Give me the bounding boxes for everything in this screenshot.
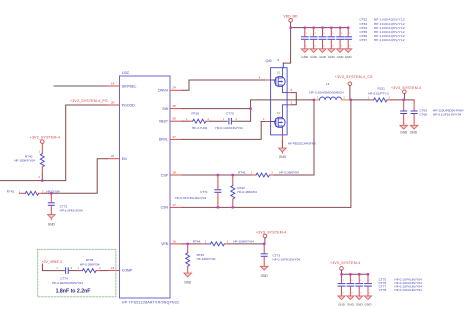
svg-text:CT71: CT71 — [200, 190, 208, 194]
transistor Q40 package — [271, 68, 288, 135]
svg-text:+3V3_SYSTEM-4: +3V3_SYSTEM-4 — [256, 231, 286, 235]
pin VBST (26) stub — [170, 120, 183, 122]
svg-text:HF-0.047UFA16V/Y04: HF-0.047UFA16V/Y04 — [175, 196, 206, 200]
capacitor CT69 — [403, 100, 405, 110]
wire RT46 to COMP — [101, 270, 107, 272]
svg-text:GND: GND — [347, 302, 355, 306]
svg-text:CT68: CT68 — [419, 112, 427, 116]
svg-text:GND: GND — [310, 55, 318, 59]
svg-text:DRVH: DRVH — [158, 89, 168, 93]
ground (CT68) — [410, 125, 418, 129]
svg-text:+2V_VREF-2: +2V_VREF-2 — [42, 260, 63, 264]
svg-text:CT74: CT74 — [60, 276, 68, 280]
svg-text:SKIPSEL: SKIPSEL — [122, 84, 137, 88]
junction VDD_MD stem — [290, 27, 292, 29]
ground (RT45) — [184, 273, 192, 277]
ground (Q40) — [279, 148, 287, 152]
svg-text:EN: EN — [122, 157, 127, 161]
svg-text:GND: GND — [356, 302, 364, 306]
svg-text:17: 17 — [173, 203, 177, 207]
wire VBST net — [183, 120, 189, 122]
junction dots top layer — [41, 27, 405, 276]
wire VDD_MD rail — [291, 27, 349, 29]
svg-text:GND: GND — [301, 55, 309, 59]
svg-text:Q40: Q40 — [265, 59, 271, 63]
wire Q40 source to GND — [281, 135, 283, 141]
svg-text:U3C: U3C — [122, 71, 130, 75]
svg-text:HF-0.48KF/04: HF-0.48KF/04 — [237, 190, 257, 194]
pin SKIPSEL (19) stub — [107, 85, 120, 87]
svg-text:+3V3_SYSTEM-4_CS: +3V3_SYSTEM-4_CS — [335, 75, 373, 79]
svg-text:D2: D2 — [277, 111, 281, 115]
pin EN (21) stub — [107, 158, 120, 160]
junction VFB/RT45 — [187, 243, 189, 245]
bottom bank value list — [379, 277, 423, 292]
resistor RT45 — [187, 244, 189, 253]
svg-text:+3V3_SYSTEM-4: +3V3_SYSTEM-4 — [330, 261, 360, 265]
svg-text:RT39: RT39 — [192, 111, 200, 115]
svg-text:HF-100KF/Y04: HF-100KF/Y04 — [233, 239, 254, 243]
ground (CT72) — [48, 215, 56, 219]
ground (CT69) — [400, 125, 408, 129]
svg-text:CSN: CSN — [161, 206, 169, 210]
svg-text:GND: GND — [328, 55, 336, 59]
svg-text:HF-0.022UFA50V/Y04: HF-0.022UFA50V/Y04 — [52, 281, 83, 285]
wire VDD_MD to Q40 drain — [283, 22, 290, 63]
ground (CT73) — [260, 266, 268, 270]
svg-text:HF-0.1UFA16V/Y04: HF-0.1UFA16V/Y04 — [395, 288, 423, 292]
svg-text:GND: GND — [400, 131, 408, 135]
svg-text:HF-0.1UFK16V/Y04: HF-0.1UFK16V/Y04 — [273, 258, 301, 262]
pin DRVH (24) stub — [170, 89, 183, 91]
svg-text:R742: R742 — [7, 189, 15, 193]
svg-text:VBST: VBST — [159, 120, 169, 124]
capacitor CT72 — [50, 193, 52, 202]
wire RT39 to CT70 — [210, 120, 227, 122]
svg-text:CSP: CSP — [161, 173, 169, 177]
capacitor bank value list — [360, 18, 405, 42]
svg-text:21: 21 — [111, 154, 115, 158]
wire +2V_VREF-2 stub — [42, 264, 64, 271]
wire CSN tap — [183, 100, 351, 207]
power flag +3V3_SYSTEM-4 (output) — [403, 90, 407, 94]
junction L3 left — [313, 99, 315, 101]
wire CT70 to SW — [232, 120, 250, 122]
resistor RT42 — [232, 174, 234, 176]
wire EN net — [45, 159, 107, 194]
svg-text:25: 25 — [173, 104, 177, 108]
svg-text:RT44: RT44 — [193, 239, 201, 243]
svg-text:GND: GND — [345, 55, 353, 59]
svg-text:HF-0.39KF/04: HF-0.39KF/04 — [80, 262, 100, 266]
pin stub Q40 gate2 — [266, 121, 271, 123]
svg-text:DRVL: DRVL — [159, 138, 168, 142]
capacitor CT66 — [337, 28, 344, 53]
wire VFB net — [183, 243, 202, 245]
capacitor CT78 — [364, 274, 371, 299]
svg-text:CT78: CT78 — [379, 288, 387, 292]
svg-text:CT70: CT70 — [226, 111, 234, 115]
svg-text:HF-0.01/PTY-2: HF-0.01/PTY-2 — [368, 92, 389, 96]
junction L3 right — [350, 99, 352, 101]
junction R740/PGOOD — [41, 180, 43, 182]
svg-text:GND: GND — [337, 55, 345, 59]
svg-text:HF-43KF/Y04: HF-43KF/Y04 — [197, 257, 216, 261]
svg-text:HP-3.3UH/SMO/SMDCH: HP-3.3UH/SMO/SMDCH — [309, 90, 343, 94]
svg-text:CT67: CT67 — [360, 38, 368, 42]
svg-text:GND: GND — [279, 155, 287, 159]
svg-text:HP-TPS51228ARTVR/9NQFN32: HP-TPS51228ARTVR/9NQFN32 — [122, 301, 179, 305]
svg-text:1.8nF to 2.2nF: 1.8nF to 2.2nF — [56, 288, 91, 294]
power flag VDD_MD — [289, 19, 293, 23]
pin VFB (16) stub — [170, 243, 183, 245]
svg-text:HP-0.1UF16.8V/Y04: HP-0.1UF16.8V/Y04 — [433, 112, 461, 116]
svg-text:+3V3_SYSTEM-4: +3V3_SYSTEM-4 — [30, 136, 60, 140]
pin CSN (17) stub — [170, 206, 183, 208]
capacitor CT71 — [217, 174, 219, 176]
svg-text:D1: D1 — [277, 70, 281, 74]
pin DRVL (27) stub — [170, 138, 183, 140]
svg-text:+3V3_SYSTEM-4_PG: +3V3_SYSTEM-4_PG — [70, 99, 108, 103]
svg-text:GND: GND — [184, 281, 192, 285]
junctions bottom bank — [340, 273, 369, 275]
svg-text:GND: GND — [48, 223, 56, 227]
svg-text:27: 27 — [173, 135, 177, 139]
wire RT44 to flag — [229, 243, 264, 245]
dashed compensation box — [38, 249, 116, 296]
svg-text:HP-10UFAQ5V/Y12: HP-10UFAQ5V/Y12 — [374, 38, 405, 42]
pin COMP (15) stub — [107, 269, 120, 271]
svg-text:16: 16 — [173, 239, 177, 243]
capacitor CT73 — [263, 244, 265, 253]
svg-text:R321: R321 — [378, 87, 386, 91]
pin SW (25) stub — [170, 108, 183, 110]
svg-text:SW: SW — [162, 107, 168, 111]
resistor R740 — [40, 154, 44, 167]
svg-text:20: 20 — [111, 100, 115, 104]
capacitor CT67 — [345, 28, 352, 53]
svg-text:GND: GND — [338, 302, 346, 306]
svg-text:HF-PE53ZCHPOFN8: HF-PE53ZCHPOFN8 — [288, 141, 316, 145]
wire SKIPSEL net — [54, 85, 107, 87]
wire DRVH net — [183, 80, 266, 90]
svg-text:24: 24 — [173, 86, 177, 90]
wire R740 to PGOOD net — [41, 174, 43, 181]
svg-text:18: 18 — [173, 170, 177, 174]
svg-text:VFB: VFB — [161, 242, 168, 246]
pin PGOOD (20) stub — [107, 104, 120, 106]
SW bracket to Q40 pins — [292, 93, 297, 105]
capacitor CT77 — [356, 274, 363, 299]
capacitor CT75 — [338, 274, 345, 299]
transistor Q40 bottom FET — [275, 117, 285, 127]
svg-text:GND: GND — [261, 274, 269, 278]
svg-text:26: 26 — [173, 117, 177, 121]
svg-text:+3V3_SYSTEM-4: +3V3_SYSTEM-4 — [391, 86, 421, 90]
junction EN/CT72 — [50, 192, 52, 194]
pin CSP (18) stub — [170, 174, 183, 176]
svg-text:HP-1UFK6.3V04: HP-1UFK6.3V04 — [60, 208, 83, 212]
transistor Q40 top FET — [275, 76, 285, 86]
junction R321 output — [403, 99, 405, 101]
capacitor CT63 — [310, 28, 317, 53]
svg-text:HF-100KF/Y04: HF-100KF/Y04 — [14, 159, 35, 163]
svg-text:HF-0.39KF/04: HF-0.39KF/04 — [279, 170, 299, 174]
capacitor CT76 — [347, 274, 354, 299]
svg-text:19: 19 — [111, 81, 115, 85]
svg-text:HF-0.1UFK16V/Y04: HF-0.1UFK16V/Y04 — [215, 126, 243, 130]
svg-text:GND: GND — [319, 55, 327, 59]
svg-text:HF-0/Y04: HF-0/Y04 — [46, 189, 60, 193]
wire SW net — [183, 100, 315, 121]
svg-text:PGOOD: PGOOD — [122, 103, 136, 107]
IC U3C body — [120, 76, 171, 298]
junction SW — [250, 108, 252, 110]
svg-text:L3: L3 — [326, 82, 330, 86]
svg-text:GND: GND — [365, 302, 373, 306]
wire CT74 to RT46 — [69, 270, 79, 272]
capacitor CT68 — [413, 100, 415, 110]
junction RT44/CT73 — [263, 243, 265, 245]
capacitor bank CT62-CT67 rail junctions — [304, 27, 350, 29]
capacitor CT65 — [328, 28, 335, 53]
svg-text:GND: GND — [410, 131, 418, 135]
svg-text:VDD_MD: VDD_MD — [284, 14, 299, 18]
power flag +3V3_SYSTEM-4 (VFB) — [263, 234, 267, 238]
svg-text:COMP: COMP — [122, 269, 133, 273]
pin stub Q40 gate1 — [266, 79, 271, 81]
capacitor CT64 — [319, 28, 326, 53]
svg-text:HF-4.7U04: HF-4.7U04 — [192, 126, 207, 130]
wire DRVL net — [183, 122, 266, 140]
power flag +3V3_SYSTEM-4 (bottom bank) — [340, 267, 344, 271]
svg-text:RT41: RT41 — [238, 170, 246, 174]
wire CSP net — [183, 174, 252, 176]
power flag +3V3_SYSTEM-4_CS — [348, 82, 352, 86]
wire bottom bank rail — [342, 273, 369, 275]
svg-text:15: 15 — [111, 266, 115, 270]
wire CSP tap — [274, 100, 315, 175]
wire PGOOD net — [0, 105, 107, 181]
capacitor CT62 — [301, 28, 308, 53]
